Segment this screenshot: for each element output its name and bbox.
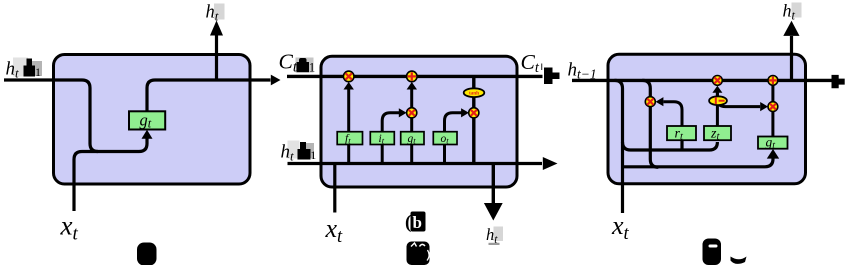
- wire z right branch C: [717, 93, 760, 107]
- arrow top output A: [210, 21, 223, 36]
- wire x_t input A: [74, 152, 82, 212]
- wire h(t-1) input A: [4, 80, 98, 152]
- wire merged input to g A: [82, 138, 147, 152]
- wire top output A: [215, 36, 218, 81]
- gate f_t B: [337, 132, 362, 146]
- mult node C*f B: [343, 71, 354, 82]
- caption (a) blob: [137, 243, 157, 265]
- wire r output C: [664, 102, 683, 126]
- arrow r into mult C: [656, 97, 664, 106]
- svg-text:b: b: [413, 213, 422, 232]
- caption c blob: [703, 239, 722, 265]
- tanh node B: [464, 88, 485, 97]
- mult node z*g C: [768, 102, 778, 112]
- wire o gate up B: [445, 113, 462, 132]
- arrow into g_t C: [767, 149, 779, 159]
- wire g feed horizontal C: [623, 158, 774, 167]
- gate g_t A: [129, 111, 165, 131]
- arrow h_t down B: [484, 203, 503, 221]
- wire g output A: [147, 80, 271, 111]
- svg-text:1: 1: [310, 148, 316, 162]
- wire r_t bottom tee C: [680, 140, 683, 150]
- cell body B: [321, 56, 517, 187]
- wire r z feed horizontal C: [623, 142, 718, 150]
- label h_t-1 B (corrupted): [281, 141, 317, 164]
- svg-text:ft: ft: [345, 133, 351, 146]
- wire h main C: [572, 79, 832, 82]
- node 1-minus C: [709, 96, 727, 105]
- arrow right output A: [271, 75, 281, 86]
- arrow g into plus B: [407, 82, 417, 90]
- arrow h right output blob C: [832, 75, 845, 88]
- wire z output up C: [716, 93, 719, 127]
- wire x_t input B: [333, 164, 336, 213]
- arrow h_t top C: [783, 21, 799, 36]
- gate g_t B: [401, 132, 424, 146]
- gate i_t B: [370, 132, 394, 146]
- wire C (cell state) B: [287, 75, 543, 78]
- svg-text:(: (: [405, 212, 411, 233]
- label h_t-1 left A (corrupted glyphs): [6, 58, 43, 81]
- wire f gate down B: [347, 144, 350, 163]
- plus node h update C: [768, 76, 778, 86]
- wire g gate down B: [410, 144, 413, 163]
- arrow into g_t A: [142, 130, 153, 139]
- mult node i*g B: [407, 108, 417, 118]
- mult node reset C: [645, 97, 655, 107]
- arrow h right output B: [543, 157, 558, 170]
- wire reset branch C: [642, 80, 658, 167]
- arrow f into mult B: [344, 82, 354, 90]
- plus node C update B: [407, 71, 418, 82]
- cell body C: [608, 54, 806, 184]
- arrow z into mult on h line C: [712, 86, 722, 93]
- gate o_t B: [433, 132, 457, 146]
- svg-text:it: it: [379, 133, 385, 146]
- gate r_t C: [667, 126, 696, 143]
- wire f gate up B: [347, 89, 350, 132]
- gate z_t C: [704, 126, 731, 143]
- wire i gate down B: [381, 144, 384, 163]
- wire h lower B: [288, 162, 543, 165]
- arrow z into mult z*g C: [760, 102, 768, 111]
- svg-text:1: 1: [35, 65, 41, 79]
- caption b blob: [407, 242, 430, 265]
- mult node o*tanh B: [469, 108, 479, 118]
- svg-text:tanh: tanh: [469, 91, 479, 97]
- svg-text:1: 1: [309, 60, 316, 75]
- wire g gate up B: [410, 89, 413, 132]
- gate g_t C: [758, 135, 788, 152]
- wire h_t down output B: [492, 164, 495, 204]
- arrow i into mult B: [399, 108, 407, 117]
- wire tanh branch B: [472, 76, 475, 163]
- wire input bundle down branch C: [615, 80, 623, 213]
- wire h_t top output C: [790, 36, 793, 80]
- svg-text:gt: gt: [408, 133, 417, 146]
- wire i gate up B: [382, 113, 399, 132]
- svg-text:ot: ot: [441, 133, 450, 146]
- cell body A: [54, 55, 251, 185]
- mult node (1-z)*h C: [713, 76, 723, 86]
- label h_t top C: [783, 1, 802, 23]
- wire g output up C: [771, 85, 774, 137]
- caption c smudge: [731, 257, 747, 264]
- wire o gate down B: [443, 144, 446, 163]
- label h_t below B: [486, 225, 503, 246]
- arrow C_t output blob B: [544, 68, 560, 85]
- label h_t top A: [206, 3, 225, 24]
- arrow o into mult B: [461, 108, 469, 117]
- caption (b): [405, 212, 426, 234]
- label C_t-1 B (corrupted): [279, 50, 316, 76]
